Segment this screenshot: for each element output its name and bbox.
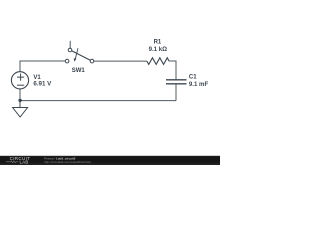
wire: capacitor C1 bottom plate down to bottom rail bbox=[175, 84, 177, 101]
wire: stub above switch SW1 top throw terminal bbox=[69, 41, 71, 48]
svg-text:SW1: SW1 bbox=[72, 68, 86, 74]
wire: bottom rail from ground node to capacitor C1 bbox=[20, 100, 176, 102]
svg-text:9.1 mF: 9.1 mF bbox=[189, 81, 209, 88]
ground bbox=[13, 101, 28, 117]
svg-text:C1: C1 bbox=[189, 75, 197, 81]
voltage source V1 bbox=[11, 72, 28, 89]
svg-text:6.91 V: 6.91 V bbox=[33, 81, 52, 88]
wire: switch SW1 right terminal to resistor R1 left lead bbox=[94, 60, 147, 62]
node: junction dot at ground / bottom rail bbox=[18, 99, 21, 102]
resistor R1 bbox=[147, 58, 169, 65]
svg-text:9.1 kΩ: 9.1 kΩ bbox=[149, 46, 168, 53]
CircuitLab logo bbox=[6, 156, 31, 164]
svg-text:R1: R1 bbox=[154, 40, 162, 46]
svg-text:LAB: LAB bbox=[20, 159, 29, 164]
capacitor C1 bbox=[166, 80, 187, 84]
wire: V1 top terminal up and right to switch SW1 left terminal bbox=[20, 61, 65, 72]
wire: V1 bottom terminal down to ground node bbox=[19, 89, 21, 101]
switch SW1 bbox=[65, 48, 94, 63]
svg-text:http://circuitlab.com/cwlp362v: http://circuitlab.com/cwlp362v2r4za bbox=[44, 160, 91, 164]
wire: resistor R1 right lead, corner down to capacitor C1 top plate bbox=[169, 61, 176, 79]
